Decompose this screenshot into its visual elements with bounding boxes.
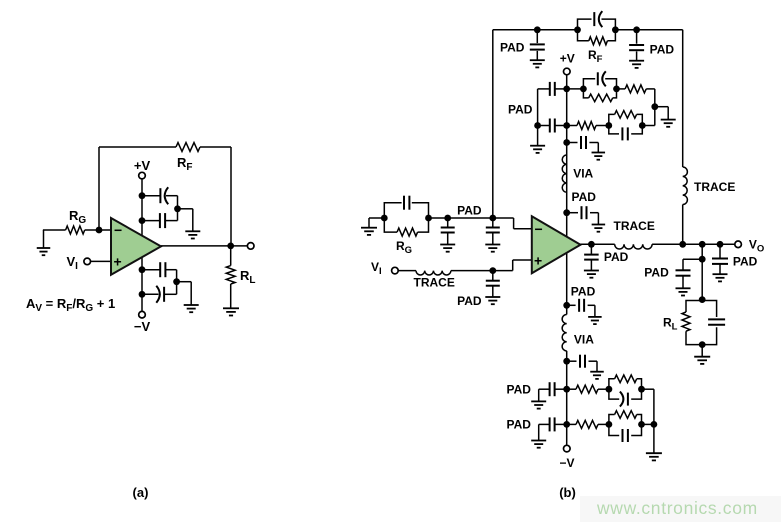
svg-text:PAD: PAD [500, 41, 525, 55]
ground -V bypass (a) [184, 305, 199, 312]
label PAD -V pin (b) [571, 285, 596, 299]
svg-text:PAD: PAD [604, 250, 629, 264]
ground PAD output (b) [584, 271, 599, 278]
resistor -V rowA parallel (b) [615, 375, 637, 383]
node RF box right (b) [612, 26, 619, 33]
svg-text:VIA: VIA [573, 167, 593, 181]
wire -V rowB box frame (b) [609, 415, 642, 436]
label plus U1 (a) [114, 254, 122, 270]
terminal +V (a) [139, 172, 146, 179]
op-amp U2 (b) [532, 216, 581, 273]
wire cap4 to junction (a) [165, 282, 177, 295]
node output VO branch (b) [699, 241, 706, 248]
label VI (b) [371, 260, 382, 277]
node +V row2 (b) [563, 122, 570, 129]
svg-text:−: − [535, 221, 543, 237]
wire feedback right vertical (a) [230, 147, 232, 246]
ground PAD noninverting (b) [485, 297, 500, 304]
ground PAD -V pin (b) [588, 317, 602, 324]
terminal VI (a) [84, 258, 91, 265]
label PAD noninverting (b) [457, 294, 482, 308]
ground RL (b) [694, 357, 710, 364]
capacitor RG parallel (b) [404, 196, 409, 210]
label minus U1 (a) [114, 222, 122, 238]
node output (a) [227, 243, 234, 250]
wire RF box frame (b) [578, 19, 616, 41]
label RG [69, 208, 86, 226]
label VIA -V (b) [574, 333, 594, 347]
label VO (b) [749, 238, 764, 255]
label (b) [559, 485, 576, 500]
node +V row3 (b) [563, 139, 570, 146]
capacitor PAD inverting 2 (b) [486, 218, 500, 245]
node +V row2 box left (b) [605, 122, 612, 129]
capacitor PAD top-right (b) [629, 30, 644, 61]
resistor +V row2 parallel (b) [615, 111, 637, 119]
label plus U2 (b) [534, 253, 542, 269]
watermark [580, 496, 781, 522]
resistor RG [66, 226, 85, 234]
ground +V row3 (b) [592, 153, 606, 160]
wire feedback top rail (b) [493, 29, 683, 31]
node -V bypass lower (a) [139, 291, 146, 298]
node output feedback junction (b) [679, 241, 686, 248]
capacitor -V rowB parallel (b) [623, 429, 628, 442]
capacitor PAD -V rowA-left (b) [539, 382, 567, 401]
wire +V supply (a) [141, 179, 143, 236]
resistor -V rowB series (b) [576, 420, 598, 428]
wire +V row1 to RC box (b) [567, 88, 584, 90]
resistor RF (a) [176, 143, 200, 152]
wire +V bypass to ground (a) [178, 209, 193, 232]
capacitor RF parallel (b) [594, 11, 602, 27]
label TRACE output (b) [614, 219, 655, 233]
node -V rowA box left (b) [606, 386, 613, 393]
node RL box top (b) [699, 296, 706, 303]
label TRACE right (b) [694, 180, 735, 194]
capacitor PAD inverting 1 (b) [441, 218, 455, 245]
capacitor PAD VO (b) [712, 244, 728, 274]
label PAD inverting (b) [457, 204, 482, 218]
ground PAD inverting 2 (b) [485, 245, 500, 252]
node PAD inverting 1 (b) [444, 215, 451, 222]
node PAD top-right (b) [633, 26, 640, 33]
wire +V row2 to right bus (b) [642, 125, 655, 127]
wire feedback left vertical (b) [492, 30, 494, 219]
wire RL tap to PAD cap (b) [683, 259, 702, 269]
terminal +V (b) [564, 68, 571, 75]
ground PAD inverting 1 (b) [440, 245, 455, 252]
resistor RG (b) [397, 228, 418, 236]
wire feedback right vertical lower (b) [682, 205, 684, 245]
svg-text:TRACE: TRACE [694, 180, 735, 194]
wire feedback top rail left (a) [99, 146, 176, 148]
inductor VIA +V (b) [562, 155, 566, 192]
wire -V rowA box frame (b) [609, 379, 642, 399]
wire cap3 to junction (a) [165, 270, 176, 282]
inductor TRACE right (b) [683, 167, 688, 205]
svg-text:+: + [534, 253, 542, 269]
wire RL box frame (b) [686, 301, 717, 345]
ground -V row0 (b) [590, 372, 604, 379]
resistor +V row2 series (b) [577, 122, 596, 130]
node output PAD right (b) [717, 241, 724, 248]
label TRACE input (b) [414, 276, 455, 290]
node RG box right (b) [425, 215, 432, 222]
wire feedback top rail right (a) [200, 146, 231, 148]
ground PAD -V rowB-left (b) [531, 441, 546, 448]
wire to bypass cap 3 (a) [142, 269, 160, 271]
node +V bypass junction (a) [174, 205, 181, 212]
svg-text:+V: +V [560, 52, 575, 66]
wire -V supply line (b) [566, 252, 568, 315]
wire to bypass cap 1 (a) [142, 195, 160, 197]
label RF (a) [177, 155, 193, 173]
node RG box left (b) [381, 215, 388, 222]
node PAD noninverting (b) [489, 267, 496, 274]
svg-text:−: − [114, 222, 122, 238]
capacitor PAD +V pin (b) [567, 206, 599, 224]
node +V row1 (b) [563, 86, 570, 93]
svg-text:PAD: PAD [644, 266, 669, 280]
node -V row0 (b) [563, 358, 570, 365]
label VIA +V (b) [573, 167, 593, 181]
inductor TRACE input (b) [416, 271, 451, 275]
wire -V rowB wires (b) [567, 423, 609, 425]
ground +V left pair (b) [530, 146, 545, 153]
wire +V supply line (b) [566, 75, 568, 237]
label PAD VO (b) [733, 254, 758, 268]
capacitor PAD output (b) [584, 244, 599, 270]
wire RG box frame (b) [384, 203, 428, 232]
wire -V rowB to right bus (b) [642, 423, 654, 425]
capacitor PAD +V row2-left (b) [538, 119, 567, 133]
node +V bypass lower (a) [139, 217, 146, 224]
wire VI to noninverting input (a) [91, 260, 111, 262]
capacitor PAD RL (b) [676, 270, 691, 288]
wire -V bypass to ground (a) [177, 282, 192, 305]
label RL (b) [663, 316, 678, 333]
resistor RL (b) [682, 312, 690, 331]
op-amp U1 (a) [111, 218, 161, 275]
wire output (a) [161, 245, 247, 247]
svg-text:TRACE: TRACE [614, 219, 655, 233]
svg-text:TRACE: TRACE [414, 276, 455, 290]
terminal output (a) [247, 243, 254, 250]
svg-text:(a): (a) [133, 485, 149, 500]
ground PAD +V pin (b) [592, 225, 606, 232]
node +V bypass upper (a) [139, 192, 146, 199]
node RL box bottom (b) [699, 341, 706, 348]
svg-text:www.cntronics.com: www.cntronics.com [596, 498, 758, 518]
wire +V row2 wires (b) [567, 125, 609, 127]
capacitor +V row2 parallel (b) [622, 127, 627, 140]
ground PAD top-left (b) [530, 60, 545, 67]
svg-text:PAD: PAD [733, 254, 758, 268]
svg-text:PAD: PAD [572, 190, 597, 204]
wire -V line mid (b) [566, 351, 568, 445]
node PAD top-left (b) [534, 26, 541, 33]
wire -V right bus to ground (b) [653, 424, 655, 453]
capacitor PAD -V rowB-left (b) [539, 417, 567, 440]
capacitor -V rowA parallel (b) [620, 392, 628, 407]
wire cap1 to junction (a) [166, 196, 178, 209]
wire RG to inverting input [85, 229, 111, 231]
wire output rail (b) [581, 243, 735, 245]
label +V (a) [134, 158, 151, 173]
svg-text:PAD: PAD [457, 294, 482, 308]
capacitor +V row1 parallel (b) [598, 71, 606, 86]
wire +V right bus lower (b) [654, 107, 656, 126]
ground PAD -V rowA-left (b) [531, 401, 546, 408]
node +V row2-left (b) [534, 122, 541, 129]
terminal VI (b) [392, 267, 399, 274]
wire to bypass cap 4 (a) [142, 293, 158, 295]
svg-text:PAD: PAD [457, 204, 482, 218]
label RF (b) [588, 48, 603, 65]
node RL top tap (b) [699, 256, 706, 263]
wire RL to ground (b) [701, 345, 703, 357]
terminal -V (a) [139, 311, 146, 318]
label minus U2 (b) [535, 221, 543, 237]
wire RL to ground (a) [230, 284, 232, 308]
capacitor PAD top-left (b) [530, 30, 545, 60]
inductor TRACE output (b) [615, 244, 652, 249]
terminal VO (b) [735, 241, 742, 248]
ground +V bypass (a) [185, 231, 200, 238]
wire +V row2 box frame (b) [609, 114, 643, 133]
label RL (a) [240, 268, 256, 286]
svg-text:PAD: PAD [650, 43, 675, 57]
wire output to RL (a) [230, 246, 232, 266]
node +V row1 box left (b) [580, 86, 587, 93]
ground PAD VO (b) [713, 274, 728, 281]
node -V rowB box right (b) [638, 421, 645, 428]
node inverting feedback tap (b) [489, 215, 496, 222]
wire -V supply (a) [141, 257, 143, 311]
label PAD +V pin (b) [572, 190, 597, 204]
formula Av [26, 296, 115, 314]
label PAD rowA (b) [507, 383, 532, 397]
capacitor PAD +V row3 (b) [567, 136, 599, 153]
node +V row1 box right (b) [613, 86, 620, 93]
wire VI to trace (b) [398, 270, 416, 272]
terminal -V (b) [564, 445, 571, 452]
label VI (a) [67, 254, 79, 272]
node inverting input (a) [96, 227, 103, 234]
resistor +V row1 series (b) [625, 85, 646, 93]
label -V (a) [134, 319, 151, 334]
resistor -V rowB parallel (b) [615, 411, 637, 419]
resistor RF (b) [589, 37, 608, 45]
ground -V right (b) [646, 453, 662, 460]
ground RG (b) [361, 218, 377, 235]
capacitor bypass C1 (a) [160, 187, 168, 204]
svg-text:+: + [114, 254, 122, 270]
label +V (b) [560, 52, 575, 66]
node -V rowA box right (b) [638, 386, 645, 393]
resistor -V rowA series (b) [576, 385, 598, 393]
node -V bypass upper (a) [139, 266, 146, 273]
svg-text:(b): (b) [559, 485, 576, 500]
node -V right bus (b) [651, 421, 658, 428]
label PAD +V left pair (b) [508, 102, 533, 116]
label PAD top-left (b) [500, 41, 525, 55]
wire +V row1 box frame (b) [583, 79, 616, 98]
node RF box left (b) [574, 26, 581, 33]
node -V bypass junction (a) [173, 278, 180, 285]
label (a) [133, 485, 149, 500]
ground PAD RL (b) [676, 288, 691, 295]
svg-text:−V: −V [559, 456, 574, 470]
capacitor bypass C3 (a) [160, 262, 165, 277]
svg-text:PAD: PAD [508, 102, 533, 116]
capacitor RL parallel (b) [708, 319, 725, 324]
node +V pin PAD (b) [563, 209, 570, 216]
capacitor PAD -V row0 (b) [567, 355, 597, 372]
wire feedback left vertical (a) [98, 147, 100, 230]
wire +V row1 to right bus (b) [617, 89, 655, 107]
node -V rowB (b) [563, 421, 570, 428]
svg-text:−V: −V [134, 319, 151, 334]
label PAD RL (b) [644, 266, 669, 280]
node -V pin PAD (b) [563, 302, 570, 309]
svg-text:PAD: PAD [507, 418, 532, 432]
wire -V rowA wires (b) [567, 388, 609, 390]
wire +V right bus to ground (b) [655, 107, 668, 120]
wire RG ground to box (b) [369, 217, 384, 219]
wire trace to noninverting (b) [451, 260, 532, 271]
label RG (b) [396, 239, 412, 256]
node PAD output (b) [588, 241, 595, 248]
inductor VIA -V (b) [562, 315, 567, 351]
wire +V left pair to ground (b) [537, 126, 539, 146]
node +V row2 box right (b) [639, 122, 646, 129]
node -V rowA (b) [563, 386, 570, 393]
ground PAD top-right (b) [629, 61, 644, 68]
capacitor PAD noninverting (b) [486, 271, 500, 297]
wire -V rowA to right bus (b) [642, 389, 654, 424]
resistor +V row1 parallel (b) [589, 94, 613, 102]
capacitor bypass C2 (a) [160, 213, 165, 228]
svg-text:PAD: PAD [507, 383, 532, 397]
capacitor bypass C4 (a) [156, 286, 164, 303]
label PAD top-right (b) [650, 43, 675, 57]
label PAD rowB (b) [507, 418, 532, 432]
capacitor PAD -V pin (b) [567, 299, 595, 317]
resistor RL (a) [226, 266, 235, 284]
wire RG input [43, 229, 66, 231]
wire inverting rail (b) [429, 218, 532, 229]
node -V rowB box left (b) [606, 421, 613, 428]
wire feedback right vertical upper (b) [682, 30, 684, 167]
ground +V right (b) [661, 120, 676, 127]
capacitor PAD +V row1-left (b) [538, 82, 567, 126]
label PAD output (b) [604, 250, 629, 264]
wire VO branch down (b) [701, 244, 703, 299]
label -V (b) [559, 456, 574, 470]
wire to bypass cap 2 (a) [142, 220, 160, 222]
ground RL (a) [223, 308, 239, 315]
wire cap2 to junction (a) [165, 209, 177, 221]
circuit (a) ground at RG input [37, 230, 51, 255]
svg-text:PAD: PAD [571, 285, 596, 299]
node +V right bus (b) [651, 103, 658, 110]
svg-text:VIA: VIA [574, 333, 594, 347]
svg-text:+V: +V [134, 158, 151, 173]
